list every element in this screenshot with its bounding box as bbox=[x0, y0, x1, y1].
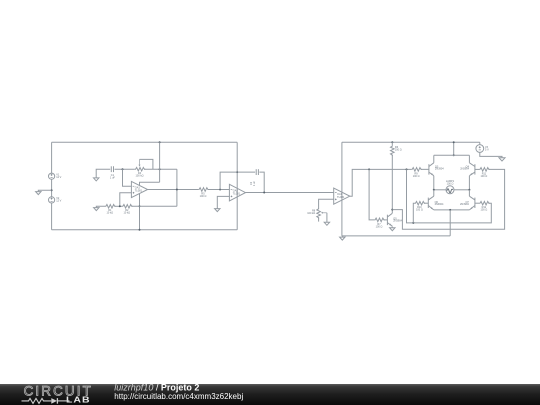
wire bbox=[449, 210, 451, 236]
wire bbox=[369, 169, 374, 220]
wire bbox=[468, 176, 470, 190]
wire bbox=[407, 169, 492, 223]
lamp LAMP1 bbox=[446, 180, 455, 194]
wire bbox=[341, 142, 343, 236]
wire bbox=[51, 179, 53, 197]
svg-text:100 kΩ: 100 kΩ bbox=[136, 175, 144, 178]
wire bbox=[236, 142, 238, 230]
wire bbox=[51, 142, 53, 173]
wire bbox=[453, 142, 455, 155]
resistor R1 bbox=[105, 205, 116, 215]
wire bbox=[421, 168, 429, 170]
svg-text:2N3904: 2N3904 bbox=[435, 203, 444, 206]
wire bbox=[391, 227, 393, 228]
wire bbox=[96, 169, 110, 178]
resistor R11 bbox=[479, 168, 490, 178]
wire bbox=[434, 189, 446, 191]
wire bbox=[115, 168, 135, 170]
wire bbox=[480, 152, 502, 157]
wire bbox=[434, 154, 470, 156]
op-amp OA2 bbox=[229, 184, 245, 201]
wire bbox=[115, 205, 122, 207]
wire bbox=[148, 189, 199, 191]
ground bbox=[215, 209, 220, 212]
ground bbox=[340, 237, 345, 240]
wire bbox=[220, 172, 255, 189]
wire bbox=[475, 168, 479, 170]
node L bbox=[368, 168, 370, 170]
wire bbox=[52, 141, 238, 143]
transistor Q3 bbox=[429, 155, 444, 175]
svg-text:100 Ω: 100 Ω bbox=[395, 149, 402, 152]
ground bbox=[36, 192, 41, 195]
transistor Q6 bbox=[428, 190, 444, 210]
wire bbox=[140, 159, 153, 169]
ground bbox=[324, 222, 329, 225]
node F bbox=[219, 189, 221, 191]
wire bbox=[159, 142, 161, 182]
node G bbox=[236, 171, 238, 173]
node K bbox=[391, 209, 393, 211]
node A bbox=[122, 168, 124, 170]
wire bbox=[434, 209, 470, 211]
transistor Q7 bbox=[460, 190, 475, 210]
potentiometer R8 bbox=[307, 208, 327, 222]
transistor Q4 bbox=[460, 155, 475, 175]
svg-text:100 Ω: 100 Ω bbox=[416, 209, 423, 212]
potentiometer R4 bbox=[135, 159, 146, 177]
svg-text:1 uF: 1 uF bbox=[253, 181, 256, 186]
wire bbox=[208, 189, 230, 191]
wire bbox=[392, 169, 504, 229]
svg-text:http://circuitlab.com/c4xmm3z6: http://circuitlab.com/c4xmm3z62kebj bbox=[114, 392, 243, 401]
wire bbox=[38, 190, 51, 191]
resistor R2 bbox=[122, 205, 133, 215]
voltage source V3 bbox=[476, 142, 489, 152]
svg-text:100 Ω: 100 Ω bbox=[447, 183, 454, 186]
wire bbox=[217, 196, 229, 208]
wire bbox=[454, 189, 470, 191]
wire bbox=[413, 203, 414, 223]
svg-text:TL081: TL081 bbox=[233, 192, 241, 196]
resistor R7 bbox=[374, 218, 385, 228]
ground bbox=[390, 228, 395, 231]
wire bbox=[342, 141, 480, 143]
node H bbox=[263, 192, 265, 194]
wire bbox=[52, 229, 238, 231]
resistor R6 bbox=[391, 142, 402, 156]
wire bbox=[259, 172, 264, 192]
svg-text:10 kΩ: 10 kΩ bbox=[123, 212, 130, 215]
svg-text:2N3904: 2N3904 bbox=[393, 220, 402, 223]
svg-text:2N3904: 2N3904 bbox=[460, 168, 469, 171]
wire bbox=[51, 203, 53, 230]
voltage source V2 bbox=[49, 197, 62, 203]
node B bbox=[159, 141, 161, 170]
node D bbox=[119, 205, 121, 207]
wire bbox=[132, 205, 177, 207]
svg-text:TL081: TL081 bbox=[135, 188, 143, 192]
wire bbox=[391, 155, 393, 213]
wire bbox=[96, 206, 105, 207]
wire bbox=[326, 213, 328, 223]
op-amp OA3 bbox=[334, 188, 350, 204]
svg-text:12 V: 12 V bbox=[56, 200, 61, 203]
svg-text:12 V: 12 V bbox=[56, 176, 61, 179]
ground bbox=[94, 178, 99, 181]
svg-text:100 Ω: 100 Ω bbox=[481, 175, 488, 178]
svg-text:100 Ω: 100 Ω bbox=[200, 195, 207, 198]
svg-text:TL081: TL081 bbox=[337, 195, 345, 199]
wire bbox=[424, 202, 428, 204]
voltage source V1 bbox=[49, 173, 62, 179]
wire bbox=[384, 219, 387, 221]
resistor R9 bbox=[411, 168, 422, 178]
node M bbox=[406, 168, 408, 170]
svg-text:10 kΩ: 10 kΩ bbox=[106, 212, 113, 215]
wire bbox=[475, 202, 479, 204]
svg-text:100 Ω: 100 Ω bbox=[413, 175, 420, 178]
wire bbox=[350, 169, 412, 196]
node R bbox=[449, 209, 451, 211]
node C bbox=[139, 205, 141, 231]
wire bbox=[140, 182, 160, 185]
resistor R12 bbox=[479, 201, 490, 211]
svg-text:1 uF: 1 uF bbox=[110, 177, 115, 180]
resistor R10 bbox=[415, 201, 426, 211]
svg-text:100 Ω: 100 Ω bbox=[376, 225, 383, 228]
wire bbox=[341, 236, 343, 237]
node supply mid bbox=[51, 189, 53, 191]
wire bbox=[246, 192, 334, 194]
svg-text:100 kΩ: 100 kΩ bbox=[307, 212, 315, 215]
wire bbox=[144, 168, 177, 170]
node E bbox=[176, 189, 178, 191]
wire bbox=[123, 169, 132, 186]
capacitor C1 bbox=[110, 166, 115, 179]
svg-text:5 V: 5 V bbox=[485, 148, 489, 151]
wire bbox=[319, 199, 334, 208]
wire bbox=[176, 169, 178, 206]
resistor R5 bbox=[198, 188, 209, 198]
node P bbox=[453, 141, 455, 156]
svg-text:100 Ω: 100 Ω bbox=[481, 209, 488, 212]
ground bbox=[499, 158, 505, 161]
node J bbox=[391, 141, 393, 143]
svg-text:2N3904: 2N3904 bbox=[435, 168, 444, 171]
node N bbox=[412, 222, 414, 224]
wire bbox=[342, 235, 450, 237]
node Q bbox=[433, 189, 471, 191]
op-amp OA1 bbox=[131, 181, 147, 197]
svg-text:2N3904: 2N3904 bbox=[460, 203, 469, 206]
capacitor C2 bbox=[250, 169, 258, 186]
wire bbox=[139, 194, 141, 230]
wire bbox=[433, 176, 435, 190]
transistor Q5 bbox=[387, 213, 402, 226]
wire bbox=[120, 193, 132, 207]
ground bbox=[94, 208, 99, 211]
